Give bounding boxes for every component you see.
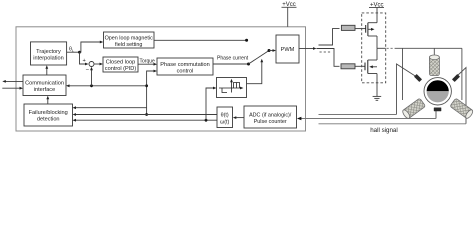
wire: omega branch up into hysteresis block	[206, 88, 215, 120]
wire: phase output dashed exit	[377, 47, 386, 49]
svg-text:Open loop magnetic: Open loop magnetic	[105, 36, 154, 42]
wire: gate fan-out lower	[317, 49, 340, 67]
wire: Q1 source to output node	[376, 36, 378, 48]
svg-text:hall signal: hall signal	[370, 127, 398, 134]
y-axis	[231, 81, 233, 93]
block: PWM	[276, 35, 299, 63]
block: Communication interface	[23, 75, 66, 96]
wire: comm interface external out (left)	[4, 80, 23, 82]
wire: Q2 source to ground	[376, 74, 378, 97]
node: feedback to summing	[90, 84, 93, 87]
wire: theta(t) line to failure detection	[74, 114, 217, 116]
controller outer box	[16, 27, 306, 131]
svg-text:θ(t): θ(t)	[221, 113, 229, 119]
wire: hysteresis output to switch actuator	[247, 61, 262, 84]
node: omega branch to hysteresis	[205, 119, 208, 122]
resistor R2 (bottom gate)	[341, 64, 355, 69]
wire: open loop output to switch contact	[154, 39, 247, 41]
wire: phase current output to switch contact	[213, 63, 249, 65]
hall bus line 2 into ADC	[299, 118, 437, 120]
svg-text:Failure/blocking: Failure/blocking	[29, 110, 68, 116]
wire: phase drop to bottom-left coil	[402, 48, 404, 100]
wire: other phases (dashed stub)	[320, 51, 332, 53]
block: ADC / Pulse counter	[244, 106, 297, 128]
svg-text:control: control	[177, 69, 194, 75]
block: Open loop magnetic field setting	[104, 32, 155, 48]
ground	[373, 96, 382, 100]
node: switch pivot	[268, 49, 271, 52]
wire: hall sensor left lead	[397, 64, 417, 115]
+Vcc supply symbol (bridge)	[369, 3, 384, 9]
wire: trajectory output	[67, 51, 80, 53]
svg-text:L: L	[72, 49, 74, 53]
x-axis	[219, 87, 241, 89]
node: switch contact B (phase current)	[247, 63, 250, 66]
wire: PWM output	[299, 48, 315, 50]
svg-text:+: +	[83, 58, 86, 64]
svg-text:interface: interface	[34, 87, 55, 93]
wire: external in to comm interface	[2, 87, 21, 89]
svg-text:−: −	[86, 68, 90, 74]
wire: ADC to theta/omega block	[235, 117, 245, 119]
wire: branch down to summing junction	[80, 52, 87, 64]
hall sensor left	[414, 74, 422, 82]
block: hysteresis comparator	[217, 78, 247, 98]
wire: comm interface up to trajectory	[46, 67, 48, 75]
wire: switch to PWM	[269, 50, 274, 52]
svg-text:Torque: Torque	[140, 59, 156, 65]
node: theta line junction	[145, 113, 148, 116]
wire: omega(t) line to failure detection	[74, 119, 217, 121]
wire: feedback up to summing minus input	[91, 68, 93, 86]
+Vcc supply symbol (controller)	[282, 2, 297, 27]
hall sensor bottom	[434, 108, 442, 112]
switch blade	[249, 51, 270, 65]
motor rotor	[424, 78, 451, 105]
svg-text:control (PID): control (PID)	[105, 66, 137, 72]
svg-text:Phase current: Phase current	[217, 56, 249, 62]
wire: R1 to Q1 gate	[355, 28, 366, 30]
transistor Q1 (high side)	[366, 23, 377, 36]
svg-text:Phase commutation: Phase commutation	[160, 62, 209, 68]
hall bus line 3	[319, 123, 467, 125]
wire: phase stub to top coil	[433, 48, 435, 56]
motor stator coil bottom-right	[450, 98, 474, 119]
wire: output node between Q1 and Q2	[376, 48, 378, 60]
wire: hall sensor bottom lead	[435, 111, 437, 119]
wire: branch up to open loop block	[80, 42, 102, 52]
wire: feedback to communication interface	[68, 85, 147, 87]
block: Closed loop control (PID)	[103, 57, 138, 72]
svg-text:PWM: PWM	[281, 47, 295, 53]
motor stator coil top	[429, 55, 439, 76]
motor stator coil bottom-left	[401, 98, 425, 119]
block: Failure/blocking detection	[24, 104, 73, 126]
wire: gate fan-out upper	[319, 29, 340, 45]
wire: R2 to Q2 gate	[355, 65, 365, 67]
resistor R1 (top gate)	[341, 25, 355, 30]
svg-text:detection: detection	[37, 117, 60, 123]
svg-text:Trajectory: Trajectory	[36, 49, 61, 55]
hall bus line 1	[319, 114, 397, 116]
wire: position feedback vertical	[147, 71, 156, 115]
wire: closed loop to phase commutation (torque)	[138, 63, 156, 65]
high step	[234, 83, 240, 89]
half-bridge module (dashed)	[362, 13, 386, 83]
block: Trajectory interpolation	[31, 42, 67, 65]
low step	[222, 88, 227, 93]
wire: phase line to motor	[395, 47, 462, 49]
svg-text:Pulse counter: Pulse counter	[254, 119, 287, 125]
node: feedback to comm	[145, 84, 148, 87]
svg-text:ω(t): ω(t)	[220, 120, 230, 126]
svg-text:ADC (if analogic)/: ADC (if analogic)/	[249, 113, 292, 119]
summing junction	[89, 62, 94, 67]
transistor Q2 (low side)	[365, 60, 377, 74]
hall sensor right	[452, 74, 460, 82]
svg-text:Communication: Communication	[25, 81, 64, 87]
wire: feedback to failure detection (top)	[74, 107, 147, 109]
wire: hall sensor right lead	[458, 68, 467, 124]
node: switch contact A (open loop)	[245, 39, 248, 42]
svg-text:field setting: field setting	[115, 42, 142, 48]
block: Phase commutation control	[157, 58, 213, 75]
svg-text:interpolation: interpolation	[33, 56, 63, 62]
svg-text:Closed loop: Closed loop	[106, 60, 136, 66]
node: trajectory branch	[78, 51, 81, 54]
block: theta/omega estimator	[217, 107, 233, 128]
wire: failure detection up to comm interface	[47, 98, 49, 105]
wire: +Vcc to Q1 drain	[376, 8, 378, 23]
wire: summing junction to closed loop	[94, 63, 101, 65]
wire: phase drop to bottom-right coil	[461, 48, 463, 100]
